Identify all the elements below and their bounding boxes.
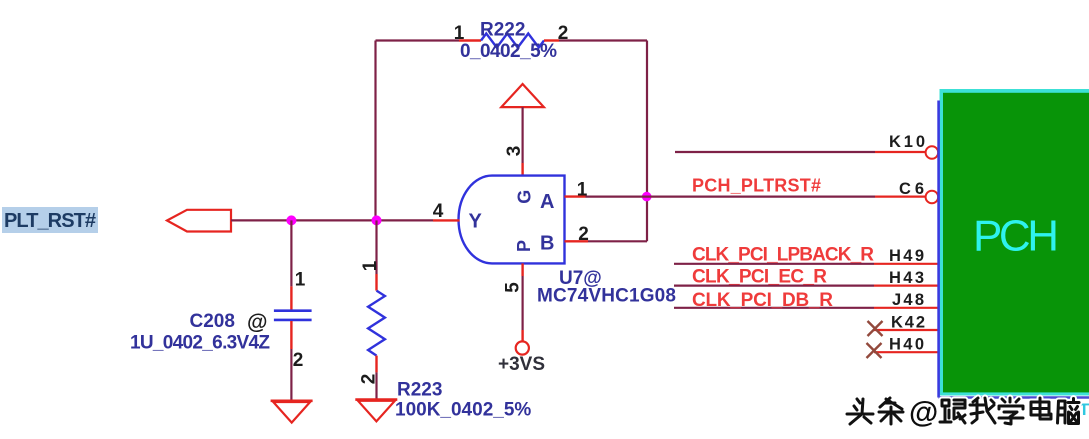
svg-text:1: 1	[360, 260, 381, 271]
wire C208 to ground	[290, 349, 292, 400]
port arrow PLT_RST#	[167, 210, 231, 232]
wire main horizontal net	[231, 219, 433, 221]
svg-text:CLK_PCI_DB_R: CLK_PCI_DB_R	[692, 290, 833, 311]
svg-text:Y: Y	[469, 211, 483, 233]
svg-text:3: 3	[504, 146, 525, 157]
watermark black stroke layer	[847, 398, 1079, 424]
wire top feedback loop left vertical	[374, 41, 376, 220]
svg-text:@: @	[247, 311, 267, 334]
pin 4 stub of U7 (output)	[433, 219, 460, 221]
junction node at C208 branch	[286, 215, 296, 225]
svg-text:G: G	[515, 190, 535, 204]
svg-text:R223: R223	[397, 380, 442, 401]
pin K10 open circle	[926, 146, 939, 159]
svg-text:CLK_PCI_LPBACK_R: CLK_PCI_LPBACK_R	[692, 245, 874, 266]
svg-text:R222: R222	[480, 20, 525, 41]
capacitor C208 pin 1 stub	[290, 286, 292, 309]
PCH chip blue left border line	[937, 101, 940, 398]
pin 5 stub of U7	[521, 263, 523, 276]
wire K10 red segment	[875, 151, 926, 153]
resistor R222 pin 2 stub	[544, 39, 559, 41]
svg-text:4: 4	[433, 201, 444, 222]
no-connect X at K42	[868, 321, 883, 336]
capacitor C208 top plate	[274, 309, 312, 312]
watermark white outline layer	[847, 398, 1079, 424]
wire B input to feedback vertical	[588, 240, 647, 242]
wire CLK_PCI_LPBACK_R red segment	[874, 263, 940, 265]
svg-text:J48: J48	[892, 291, 924, 309]
net label PLT_RST# highlight	[2, 207, 98, 233]
svg-text:100K_0402_5%: 100K_0402_5%	[395, 400, 531, 421]
svg-text:PLT_RST#: PLT_RST#	[4, 210, 96, 232]
svg-text:H40: H40	[889, 336, 924, 354]
wire top feedback loop horizontal left segment	[376, 39, 460, 41]
PCH chip cyan border	[940, 89, 1089, 396]
svg-text:MC74VHC1G08: MC74VHC1G08	[537, 286, 676, 307]
wire pin5 to +3VS	[521, 276, 523, 330]
junction node at R223 branch	[372, 215, 382, 225]
no-connect X at H40	[867, 343, 882, 358]
wire top feedback loop right vertical down to B input	[646, 41, 648, 242]
svg-text:@: @	[909, 396, 938, 429]
svg-text:A: A	[540, 191, 554, 213]
svg-text:1U_0402_6.3V4Z: 1U_0402_6.3V4Z	[130, 332, 270, 353]
wire C208 branch upper	[290, 220, 292, 286]
svg-text:C208: C208	[190, 311, 235, 332]
resistor R222 zigzag	[481, 34, 544, 48]
svg-text:5: 5	[503, 282, 524, 293]
wire PCH_PLTRST# red segment near pin	[875, 196, 926, 198]
svg-text:K42: K42	[891, 313, 925, 331]
power symbol triangle (VCC)	[501, 84, 544, 107]
wire R223 to ground	[375, 372, 377, 399]
svg-text:1: 1	[295, 270, 306, 291]
wire CLK_PCI_DB_R net	[674, 307, 874, 309]
wire R223 branch upper	[375, 220, 377, 274]
pin C6 open circle	[926, 191, 939, 204]
pin 2 stub of U7 (input B)	[565, 240, 589, 242]
svg-text:2: 2	[558, 23, 569, 44]
svg-text:PCH_PLTRST#: PCH_PLTRST#	[692, 175, 821, 195]
wire top feedback loop horizontal right segment	[559, 39, 647, 41]
svg-text:2: 2	[578, 224, 589, 245]
svg-text:PCH: PCH	[973, 211, 1059, 260]
wire CLK_PCI_LPBACK_R net	[674, 263, 874, 265]
wire power symbol stem	[521, 107, 523, 163]
svg-text:P: P	[514, 240, 534, 252]
resistor R223 pin 2 stub	[375, 356, 377, 373]
wire H40 no-connect stub	[874, 351, 940, 353]
capacitor C208 bottom plate	[274, 319, 312, 322]
wire PCH_PLTRST# net to C6	[586, 196, 876, 198]
junction node at gate output feedback	[642, 192, 652, 202]
PCH chip blue bottom border line	[939, 396, 1089, 399]
svg-text:K10: K10	[889, 133, 925, 151]
svg-text:2: 2	[293, 350, 304, 371]
ground symbol below R223	[358, 401, 395, 422]
resistor R222 pin 1 stub	[459, 39, 481, 41]
svg-text:+3VS: +3VS	[498, 354, 545, 375]
capacitor C208 pin 2 stub	[290, 321, 292, 349]
svg-text:0_0402_5%: 0_0402_5%	[460, 41, 557, 62]
pin 1 stub of U7 (input A)	[565, 195, 586, 197]
svg-text:H49: H49	[889, 247, 924, 265]
op-amp U7 AND gate body (mirrored, output left)	[459, 176, 565, 264]
pin 3 stub of U7	[521, 163, 523, 176]
wire K42 no-connect stub	[874, 329, 940, 331]
+3VS open circle terminal	[516, 341, 529, 354]
wire CLK_PCI_EC_R net	[674, 285, 874, 287]
svg-text:B: B	[540, 233, 554, 255]
wire K10 net	[675, 151, 875, 153]
PCH chip green body	[943, 93, 1089, 393]
resistor R223 zigzag	[368, 291, 385, 356]
wire CLK_PCI_EC_R red segment	[874, 285, 940, 287]
svg-text:H43: H43	[889, 269, 924, 287]
svg-text:CLK_PCI_EC_R: CLK_PCI_EC_R	[692, 267, 827, 288]
resistor R223 pin 1 stub	[375, 274, 377, 291]
ground symbol below C208	[273, 402, 310, 423]
wire CLK_PCI_DB_R red segment	[874, 307, 940, 309]
